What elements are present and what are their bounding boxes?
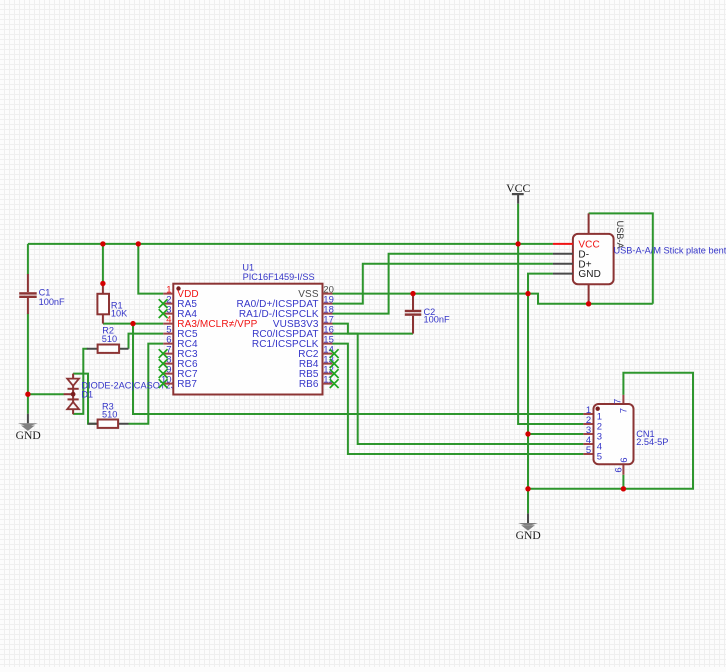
wire D1 to GND junction (28, 393, 64, 395)
svg-text:2.54-5P: 2.54-5P (636, 437, 668, 447)
wire USB shield loop (589, 213, 653, 303)
wire U1 RC5 to R2 (129, 334, 164, 349)
junction GND / CN1 pin3 (525, 431, 530, 436)
wire MCLR to CN1 pin1 (133, 324, 583, 414)
diode D1 (dual TVS DIODE-2AC CASOT23) (64, 374, 176, 415)
CN1 pin numbers (586, 399, 630, 473)
wire VCC rail (28, 243, 553, 245)
svg-text:6: 6 (619, 457, 630, 462)
junction VCC rail / VCC symbol (515, 241, 520, 246)
svg-text:GND: GND (516, 529, 541, 542)
capacitor C2 (405, 294, 450, 334)
svg-text:U1: U1 (242, 262, 254, 272)
wire R1 to U1 RA3 (103, 323, 163, 325)
svg-text:D1: D1 (81, 389, 93, 399)
svg-text:5: 5 (586, 445, 591, 456)
svg-text:10K: 10K (111, 309, 128, 319)
junction CN1 pin6 / bottom wire (621, 486, 626, 491)
U1 pin labels (177, 289, 319, 390)
wire C1 to GND (27, 314, 29, 414)
junction VCC rail / R1 (100, 241, 105, 246)
junction GND vertical / bottom wire (525, 486, 530, 491)
svg-text:GND: GND (578, 269, 601, 280)
junction C1 / D1 / GND (25, 392, 30, 397)
junction VSS / USB GND (525, 291, 530, 296)
junction VSS / C2 (410, 291, 415, 296)
svg-text:5: 5 (597, 452, 602, 463)
junction VCC rail / VDD drop (136, 241, 141, 246)
wire GND bottom to CN1 shell (528, 373, 693, 489)
junction RA3 / MCLR net (130, 321, 135, 326)
svg-text:USB-A-A/M Stick plate bent: USB-A-A/M Stick plate bent (614, 246, 726, 256)
svg-text:7: 7 (619, 408, 630, 413)
wire RC0 to CN1 pin4 (333, 334, 584, 444)
wire VUSB3V3 to C2 (333, 324, 414, 334)
junction R1 top (100, 281, 105, 286)
wire C1 top (27, 244, 29, 275)
power VCC (506, 181, 530, 204)
wire U1 RA1 to USB D- (333, 254, 553, 314)
wire VCC to R1 (102, 244, 104, 284)
wire GND step to shield (528, 294, 653, 304)
wire GND to CN1 pin3 (528, 433, 583, 435)
U1 pin numbers (161, 285, 334, 386)
wire U1 RA0 to USB D+ (333, 264, 553, 304)
CN1 pin stubs (583, 395, 623, 475)
svg-text:6: 6 (614, 467, 625, 472)
resistor R3 (88, 402, 129, 428)
svg-text:GND: GND (16, 429, 41, 442)
resistor R2 (87, 326, 129, 353)
wire RC1 to CN1 pin5 (333, 344, 584, 454)
IC U1 PIC16F1459-I/SS (159, 262, 339, 394)
junction shield / GND wire (586, 301, 591, 306)
USB-A connector (553, 213, 726, 303)
wire VCC to CN1 pin2 (518, 244, 583, 424)
capacitor C1 (19, 274, 65, 314)
wire VSS (333, 293, 529, 295)
svg-text:PIC16F1459-I/SS: PIC16F1459-I/SS (243, 272, 315, 282)
svg-text:RB6: RB6 (299, 379, 319, 390)
svg-text:510: 510 (102, 409, 117, 419)
wire R2 to D1 bottom (73, 349, 87, 414)
wire USB GND down to ground (528, 274, 553, 514)
svg-text:100nF: 100nF (424, 315, 450, 325)
USB shield stubs (588, 213, 590, 303)
wire VCC symbol drop (517, 204, 519, 244)
CN1 pin 1 marker (596, 407, 600, 411)
svg-text:RB7: RB7 (177, 379, 197, 390)
svg-text:7: 7 (613, 399, 624, 404)
wire CN1 pin6 to GND (622, 475, 624, 489)
U1 pin stubs (163, 294, 332, 384)
connector CN1 2.54-5P (583, 395, 668, 475)
wire D1 top to R3 (73, 374, 98, 424)
ground left (16, 414, 41, 443)
svg-text:100nF: 100nF (39, 297, 65, 307)
wire U1 RC4 to R3 (129, 344, 164, 424)
USB pins (553, 243, 573, 245)
U1 pin 1 marker (176, 286, 180, 290)
svg-text:510: 510 (102, 334, 117, 344)
svg-text:VCC: VCC (506, 181, 530, 195)
resistor R1 (97, 284, 128, 324)
U1 no-connect marks (159, 299, 339, 388)
wire VCC to U1 VDD (138, 244, 163, 294)
ground bottom (516, 513, 541, 542)
